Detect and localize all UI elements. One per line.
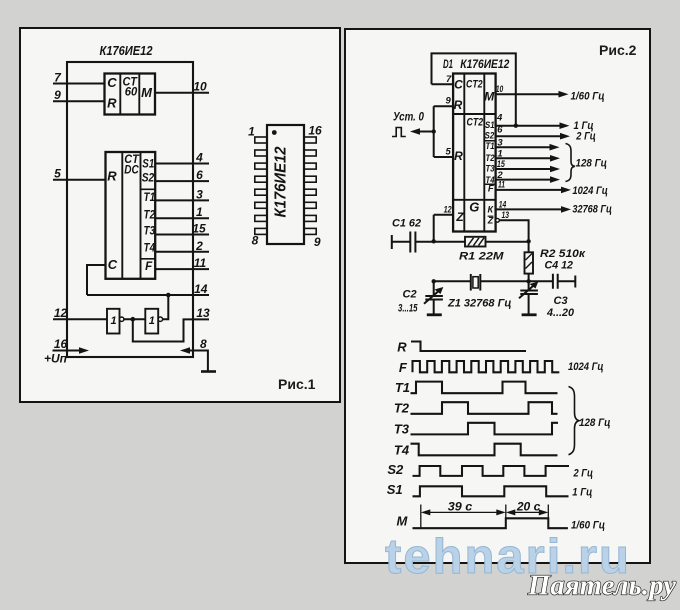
svg-text:T4: T4	[144, 243, 156, 255]
pin 1 wire T2 output	[155, 205, 209, 219]
svg-text:Паятель.ру: Паятель.ру	[527, 571, 676, 602]
svg-text:C: C	[108, 257, 118, 272]
svg-text:1: 1	[196, 205, 203, 219]
pin 7 wire	[53, 71, 105, 85]
svg-text:4: 4	[195, 151, 203, 165]
svg-text:128 Гц: 128 Гц	[576, 157, 608, 169]
svg-text:11: 11	[194, 256, 207, 270]
svg-text:К176ИЕ12: К176ИЕ12	[460, 59, 510, 71]
pin 3 wire T1 output	[496, 137, 560, 150]
ground C2	[427, 313, 442, 316]
watermark tehnari.ru	[385, 530, 631, 584]
svg-text:16: 16	[308, 124, 322, 138]
pin 2 wire T4 output	[496, 170, 560, 183]
pin 11 wire 1024 Hz output	[496, 180, 608, 197]
svg-text:Рис.1: Рис.1	[278, 376, 316, 392]
wire between inverters	[124, 318, 145, 320]
pin 4 wire 1 Hz output	[496, 112, 594, 131]
wire feedback loop to pin 13	[133, 306, 210, 342]
svg-text:12: 12	[54, 306, 68, 320]
pin 2 wire T4 output	[155, 239, 209, 253]
wire left riser pin9 to pin5	[433, 106, 435, 157]
wire inverter2 output to pin14 node	[163, 295, 169, 319]
svg-text:G: G	[469, 200, 479, 215]
pulse symbol	[392, 128, 406, 137]
svg-text:Z: Z	[455, 210, 464, 224]
trimmer capacitor C2	[398, 281, 443, 314]
ground symbol	[201, 370, 216, 373]
svg-text:2: 2	[195, 239, 203, 253]
node junction on pin14 wire	[166, 293, 171, 298]
svg-text:9: 9	[446, 96, 452, 107]
svg-text:DC: DC	[124, 162, 139, 176]
caption Ris.1	[278, 376, 316, 392]
svg-text:16: 16	[54, 337, 68, 351]
waveform F 1024 Hz	[399, 360, 604, 375]
dimension ticks	[421, 505, 549, 529]
svg-text:4: 4	[496, 112, 503, 123]
dimension 39 s	[421, 500, 506, 516]
pin 11 wire F output	[155, 256, 209, 270]
svg-text:D1: D1	[443, 59, 453, 71]
pin 10 wire 1/60 Hz output	[496, 84, 605, 103]
svg-text:11: 11	[498, 180, 505, 191]
pin 7 wire	[432, 74, 454, 85]
svg-text:С4 12: С4 12	[545, 259, 574, 271]
node osc right junction	[526, 239, 530, 243]
IC boundary DD1	[67, 62, 193, 357]
svg-text:R: R	[397, 339, 407, 354]
ground C3	[522, 313, 537, 316]
svg-text:3: 3	[196, 187, 203, 201]
node junction between inverters	[131, 317, 136, 322]
brace 128 Hz group	[566, 144, 608, 182]
svg-text:Т4: Т4	[394, 442, 410, 457]
wire C input loop	[87, 265, 106, 295]
svg-text:15: 15	[497, 159, 506, 170]
wire pin12 riser	[433, 215, 435, 242]
svg-text:T2: T2	[486, 153, 495, 163]
svg-text:1/60 Гц: 1/60 Гц	[571, 90, 605, 102]
node C3 junction	[526, 279, 530, 283]
svg-text:C2: C2	[403, 288, 417, 300]
pin 10 wire M output	[155, 80, 209, 94]
svg-text:3: 3	[497, 137, 503, 148]
svg-text:Z1 32768 Гц: Z1 32768 Гц	[447, 297, 512, 309]
svg-text:3...15: 3...15	[398, 302, 418, 314]
RIGHT-PANEL-CIRCUIT	[392, 42, 637, 319]
svg-text:R1 22М: R1 22М	[459, 250, 504, 262]
svg-text:6: 6	[196, 168, 203, 182]
svg-text:128 Гц: 128 Гц	[579, 417, 611, 429]
IC D1 title box	[432, 53, 516, 125]
pin 3 wire T1 output	[155, 187, 209, 201]
inverter U1c	[107, 309, 124, 334]
svg-text:C: C	[107, 75, 117, 90]
svg-text:60: 60	[125, 84, 138, 98]
svg-text:14: 14	[194, 282, 208, 296]
waveform R	[397, 339, 526, 354]
svg-text:10: 10	[193, 80, 207, 94]
svg-text:+Uп: +Uп	[44, 352, 68, 366]
svg-text:S1: S1	[387, 482, 403, 497]
svg-text:R: R	[454, 98, 463, 112]
waveform T4	[394, 442, 558, 457]
svg-text:1: 1	[497, 148, 502, 159]
svg-text:9: 9	[54, 88, 61, 102]
svg-text:CT2: CT2	[467, 116, 484, 128]
svg-text:Рис.2: Рис.2	[599, 42, 637, 58]
node Ust.0 junction	[432, 129, 436, 133]
svg-text:C1 62: C1 62	[392, 218, 421, 230]
pin 9 wire	[53, 88, 105, 102]
svg-text:6: 6	[497, 124, 503, 135]
svg-text:1 Гц: 1 Гц	[572, 487, 592, 499]
waveform M 1/60 Hz	[396, 513, 605, 531]
svg-text:1: 1	[110, 315, 116, 327]
caption Ris.2	[599, 42, 637, 58]
svg-text:К176ИЕ12: К176ИЕ12	[100, 44, 153, 58]
svg-text:1: 1	[248, 125, 255, 139]
svg-text:T2: T2	[144, 209, 156, 221]
IC title K176IE12	[100, 44, 153, 58]
svg-text:4...20: 4...20	[546, 307, 575, 319]
pin 8 wire with arrow	[180, 337, 208, 371]
pin 1 wire T2 output	[496, 148, 560, 161]
pin 13 wire	[499, 210, 528, 241]
watermark Payatel.ru	[527, 571, 676, 602]
waveform S2 2 Hz	[387, 462, 593, 480]
wire title box edge to S1 node	[514, 124, 518, 128]
svg-text:C: C	[454, 78, 463, 92]
svg-text:15: 15	[192, 222, 206, 236]
svg-text:10: 10	[496, 84, 504, 95]
crystal Z1	[447, 274, 529, 309]
Ust.0 input arrow	[393, 109, 434, 135]
svg-text:13: 13	[196, 306, 210, 320]
waveform T3	[394, 422, 558, 437]
pin 6 wire S2 output	[155, 168, 209, 182]
svg-text:T1: T1	[486, 141, 495, 151]
svg-text:F: F	[488, 184, 494, 195]
svg-text:T3: T3	[486, 164, 495, 174]
pin 14 wire 32768 Hz output	[496, 199, 612, 215]
svg-text:12: 12	[444, 205, 453, 216]
svg-text:F: F	[399, 360, 408, 375]
node osc left junction	[432, 239, 436, 243]
svg-text:S2: S2	[387, 462, 404, 477]
counter CT60 block	[105, 74, 156, 115]
svg-text:R: R	[107, 169, 117, 184]
pin 6 wire 2 Hz output	[496, 124, 596, 142]
svg-text:39 c: 39 c	[448, 500, 473, 514]
svg-text:T1: T1	[144, 192, 156, 204]
svg-text:S2: S2	[485, 131, 495, 141]
pin 15 wire T3 output	[155, 222, 209, 236]
capacitor C4	[529, 274, 576, 289]
waveform S1 1 Hz	[387, 482, 593, 499]
pin 14 wire	[87, 282, 209, 296]
pin 4 wire S1 output	[155, 151, 209, 165]
RIGHT-PANEL-TIMING	[387, 339, 611, 531]
svg-text:Z: Z	[487, 215, 494, 225]
svg-text:S1: S1	[142, 158, 154, 170]
waveform T2	[394, 401, 558, 416]
counter-decoder CTDC block	[106, 152, 156, 279]
svg-text:M: M	[396, 513, 408, 528]
svg-text:S1: S1	[485, 120, 495, 130]
svg-text:2 Гц: 2 Гц	[575, 130, 595, 142]
pin 12 wire	[434, 205, 453, 216]
svg-text:Уст. 0: Уст. 0	[393, 109, 424, 123]
svg-text:R: R	[454, 149, 463, 163]
brace 128 Hz timing	[569, 387, 611, 455]
capacitor C1	[392, 218, 434, 253]
svg-text:8: 8	[252, 234, 259, 248]
pin 5 wire R input	[53, 167, 106, 181]
svg-text:F: F	[145, 261, 153, 273]
pin 16 +Un input with arrow	[44, 337, 89, 366]
svg-text:T1: T1	[395, 380, 410, 395]
svg-text:1024 Гц: 1024 Гц	[572, 185, 608, 197]
svg-text:R: R	[107, 96, 117, 111]
wire crystal line	[434, 280, 471, 282]
svg-text:5: 5	[54, 167, 61, 181]
svg-text:M: M	[484, 90, 495, 104]
svg-text:5: 5	[445, 146, 451, 157]
svg-text:7: 7	[446, 74, 452, 85]
svg-text:CT2: CT2	[466, 79, 483, 91]
svg-text:13: 13	[502, 210, 510, 221]
resistor R1	[434, 237, 529, 262]
resistor R2	[525, 241, 587, 281]
svg-text:9: 9	[314, 235, 321, 249]
pin 13 output bubble	[496, 218, 500, 222]
DIP-16 package	[248, 124, 322, 250]
IC D1 block outline	[453, 74, 496, 232]
svg-text:С3: С3	[554, 295, 568, 307]
svg-text:20 c: 20 c	[516, 500, 541, 514]
pin 12 wire	[53, 306, 107, 320]
inverter U1d	[145, 309, 162, 334]
pin 15 wire T3 output	[496, 159, 560, 172]
pin 5 wire	[434, 146, 453, 157]
svg-text:1: 1	[149, 315, 155, 327]
trimmer capacitor C3	[519, 281, 575, 319]
svg-text:T3: T3	[144, 225, 156, 237]
svg-text:1024 Гц: 1024 Гц	[568, 361, 604, 373]
svg-text:32768 Гц: 32768 Гц	[572, 204, 612, 216]
svg-text:К176ИЕ12: К176ИЕ12	[273, 146, 290, 217]
svg-text:Т3: Т3	[394, 422, 410, 437]
waveform T1	[395, 380, 558, 395]
node C2 junction	[432, 279, 436, 283]
svg-text:S2: S2	[142, 172, 155, 184]
svg-text:14: 14	[499, 199, 507, 210]
svg-text:Т2: Т2	[394, 401, 410, 416]
svg-text:R2 510к: R2 510к	[540, 248, 587, 260]
dimension 20 s	[506, 500, 549, 516]
pin 9 wire	[434, 96, 453, 107]
svg-text:8: 8	[200, 337, 207, 351]
svg-text:M: M	[141, 85, 153, 100]
svg-text:2 Гц: 2 Гц	[573, 468, 593, 480]
